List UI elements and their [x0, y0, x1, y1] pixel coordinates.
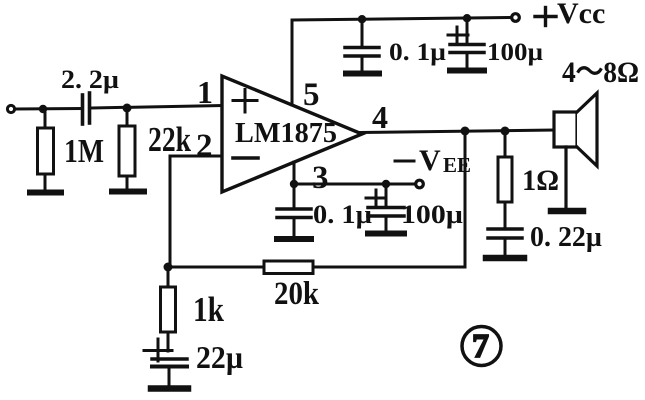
ground for R1: [30, 190, 61, 196]
-VEE terminal: [416, 180, 424, 188]
node dot at input/1M junction: [39, 105, 47, 113]
svg-text:1: 1: [197, 74, 213, 110]
label -VEE minus sign: [395, 160, 414, 163]
svg-text:22k: 22k: [148, 120, 191, 159]
svg-text:2: 2: [196, 128, 213, 164]
wire VEE line: [294, 183, 415, 186]
resistor R3 20k: [264, 261, 313, 274]
capacitor C2 0.1u top: [345, 19, 379, 71]
svg-text:7: 7: [472, 328, 489, 365]
capacitor C1 2.2u plates: [83, 93, 90, 124]
svg-text:1Ω: 1Ω: [522, 164, 559, 197]
op-amp minus symbol: [233, 156, 258, 160]
resistor R2 22k: [119, 108, 135, 189]
op-amp U1 LM1875 triangle: [222, 76, 362, 192]
svg-text:4: 4: [372, 99, 388, 135]
label +Vcc: [557, 0, 605, 30]
wire pin 5 riser: [291, 20, 294, 105]
node dot VEE/C5: [382, 180, 390, 188]
op-amp plus symbol: [233, 90, 257, 113]
node dot output/feedback: [461, 127, 470, 136]
svg-text:5: 5: [303, 77, 320, 113]
ground for speaker: [551, 208, 583, 215]
svg-text:V: V: [419, 144, 441, 177]
wire pin 2: [170, 156, 222, 267]
ground for C7: [486, 255, 524, 262]
ground for C2: [346, 71, 379, 77]
svg-text:4～8Ω: 4～8Ω: [562, 56, 639, 89]
resistor R5 1ohm: [498, 131, 512, 227]
+Vcc terminal: [512, 14, 520, 22]
ground for C4: [277, 236, 311, 242]
svg-text:1k: 1k: [193, 290, 224, 329]
resistor R4 1k: [161, 267, 176, 351]
svg-text:0. 22µ: 0. 22µ: [530, 221, 602, 253]
wire feedback to node: [168, 266, 264, 269]
svg-text:LM1875: LM1875: [235, 117, 337, 149]
svg-text:2. 2µ: 2. 2µ: [61, 65, 119, 94]
svg-text:1M: 1M: [64, 133, 104, 170]
svg-text:3: 3: [312, 160, 329, 196]
capacitor C3 100u top electrolytic: [448, 19, 484, 68]
node dot feedback/1k: [164, 263, 173, 272]
label +Vcc plus sign: [535, 8, 556, 26]
label -VEE: [419, 144, 471, 177]
svg-text:0. 1µ: 0. 1µ: [313, 200, 372, 229]
node dot rail/C3: [463, 14, 471, 22]
wire pin 3 drop: [293, 162, 296, 184]
node dot output/1ohm: [501, 127, 510, 136]
wire input left segment: [15, 107, 81, 111]
svg-text:EE: EE: [443, 153, 471, 177]
node dot at C1/22k junction: [123, 104, 132, 113]
capacitor C7 0.22u: [488, 229, 522, 255]
ground for C5: [368, 231, 404, 237]
wire output pin 4: [360, 130, 554, 133]
speaker LS1: [554, 93, 597, 208]
svg-text:Vcc: Vcc: [557, 0, 605, 30]
svg-text:20k: 20k: [274, 276, 320, 312]
ground for C3: [450, 68, 484, 74]
wire input right segment to pin 1: [92, 106, 222, 109]
resistor R1 1M: [38, 109, 54, 190]
ground for C6: [151, 385, 188, 392]
input terminal: [7, 105, 14, 112]
capacitor C6 22u electrolytic: [144, 339, 187, 385]
node dot pin3/C4: [290, 180, 298, 188]
capacitor C5 100u bottom electrolytic: [366, 184, 404, 230]
svg-text:0. 1µ: 0. 1µ: [389, 39, 446, 66]
svg-text:100µ: 100µ: [401, 200, 463, 229]
capacitor C4 0.1u bottom: [277, 184, 311, 236]
svg-text:22µ: 22µ: [196, 339, 243, 375]
figure number circled 7: [462, 327, 501, 366]
wire feedback down and across: [313, 131, 465, 267]
node dot rail/C2: [358, 15, 366, 23]
wire Vcc rail: [292, 18, 511, 21]
ground for R2: [112, 189, 144, 195]
svg-text:100µ: 100µ: [487, 39, 543, 66]
